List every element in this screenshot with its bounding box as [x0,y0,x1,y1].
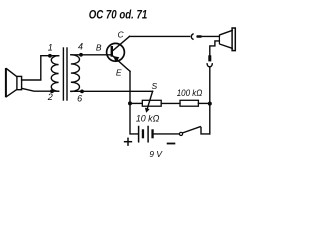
svg-text:6: 6 [77,93,82,103]
svg-text:E: E [116,67,122,77]
svg-text:10 kΩ: 10 kΩ [136,114,160,124]
svg-text:B: B [96,43,102,53]
svg-text:100 kΩ: 100 kΩ [177,88,203,98]
svg-text:2: 2 [47,92,53,102]
svg-text:OC 70 od. 71: OC 70 od. 71 [89,7,148,21]
svg-text:C: C [118,29,125,39]
svg-text:9 V: 9 V [149,149,163,159]
svg-text:S: S [151,81,157,91]
svg-text:4: 4 [78,42,83,52]
svg-text:1: 1 [48,42,53,52]
